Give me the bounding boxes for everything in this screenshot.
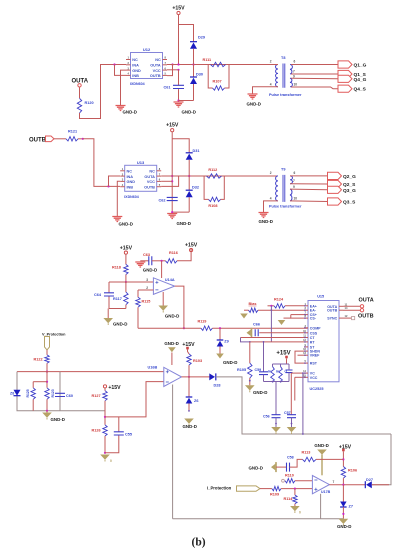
junction opamp V+ node xyxy=(161,260,163,262)
wire divider ground bus xyxy=(109,308,126,310)
svg-text:R109: R109 xyxy=(270,493,279,497)
ground GND-D T9 pin4 xyxy=(259,213,269,218)
U15 pin stub SHDN xyxy=(304,350,308,352)
port Q1_G xyxy=(338,61,352,68)
U15 pin stub VREF xyxy=(304,354,308,356)
svg-text:R125: R125 xyxy=(26,389,30,397)
svg-text:2: 2 xyxy=(270,60,272,64)
wire T8 pin4 to ground xyxy=(253,87,279,94)
svg-text:R124: R124 xyxy=(274,298,284,302)
ground GND-D below C61 xyxy=(174,102,184,107)
svg-text:10: 10 xyxy=(294,197,298,201)
wire CT row xyxy=(241,337,305,339)
wire R107 loop right xyxy=(225,65,230,89)
capacitor C59 xyxy=(259,372,268,375)
wire C56 bottom xyxy=(275,418,277,427)
svg-text:4: 4 xyxy=(270,83,272,87)
svg-text:9: 9 xyxy=(293,185,295,189)
port OUTA circle xyxy=(78,84,81,87)
port OUTB pwm circle xyxy=(360,309,363,312)
IC U15 PWM controller box xyxy=(308,301,339,382)
wire comp pulldown vertical xyxy=(302,373,304,434)
svg-text:R113: R113 xyxy=(302,451,311,455)
ground 0 R114 xyxy=(290,506,300,511)
U15 pin stub VCC xyxy=(304,376,308,378)
junction VP inner xyxy=(46,381,48,383)
U15 pin stub RST xyxy=(304,362,308,364)
junction R113 +15V xyxy=(342,458,344,460)
svg-text:2: 2 xyxy=(146,286,148,290)
resistor R timing 2 xyxy=(279,367,283,383)
junction output Z7 xyxy=(342,484,344,486)
wire U13 GND pin down xyxy=(117,181,120,216)
svg-text:Z6: Z6 xyxy=(194,399,198,403)
svg-text:GND-D: GND-D xyxy=(249,465,263,470)
svg-text:OUTA: OUTA xyxy=(144,175,155,179)
ground GND-D R105 xyxy=(245,385,255,390)
U12 right pin stub 6 xyxy=(163,69,168,71)
wire U12 VCC to +15V column xyxy=(167,69,179,71)
junction OUTB wire xyxy=(82,138,84,140)
wire VC row xyxy=(291,372,304,374)
wire T9 pin4 to ground xyxy=(264,201,279,213)
svg-text:GND-D: GND-D xyxy=(314,443,328,448)
junction U13 OUTA tie xyxy=(171,175,173,177)
svg-text:Z8: Z8 xyxy=(10,391,14,395)
svg-text:6: 6 xyxy=(294,60,296,64)
wire T8 pin7 to Q1_S xyxy=(291,73,338,75)
ground GND-D divider xyxy=(103,318,113,323)
svg-text:RST: RST xyxy=(310,362,318,366)
wire comp line to PWM xyxy=(212,327,308,329)
svg-text:6: 6 xyxy=(294,171,296,175)
U15 pin stub RT xyxy=(304,341,308,343)
svg-text:Q1_G: Q1_G xyxy=(354,63,367,69)
wire node to opamp plus xyxy=(109,281,153,283)
svg-text:R126: R126 xyxy=(92,429,101,433)
capacitor C60 xyxy=(55,393,65,396)
svg-text:GND-D: GND-D xyxy=(113,322,127,327)
svg-text:COMP: COMP xyxy=(310,326,321,330)
wire R122 to node xyxy=(46,363,48,371)
junction VP gnd node xyxy=(46,410,48,412)
svg-text:GND-D: GND-D xyxy=(123,110,137,115)
svg-text:GND-D: GND-D xyxy=(119,222,133,227)
port Q1_S xyxy=(338,70,352,77)
wire Z9 to ground xyxy=(219,347,221,354)
ground GND-D C56 xyxy=(271,427,281,432)
power +15V (U14A supply) xyxy=(190,249,193,252)
svg-text:GND-D: GND-D xyxy=(337,524,351,529)
wire C63 to R116 xyxy=(152,260,166,262)
wire C61 bottom lead xyxy=(178,89,180,100)
svg-text:D28: D28 xyxy=(214,384,221,388)
U13 left pin stub 2 xyxy=(120,175,125,177)
op-amp U16B xyxy=(164,367,182,386)
svg-text:GND-D: GND-D xyxy=(51,417,65,422)
diode Z6 xyxy=(186,396,193,398)
wire R120 to U12 inputs xyxy=(80,65,127,119)
resistor R113 xyxy=(303,457,317,461)
ground GND-D T8 pin4 xyxy=(248,94,258,99)
svg-text:INA: INA xyxy=(132,64,139,68)
svg-text:GND-D: GND-D xyxy=(177,221,191,226)
wire INA to INB tie xyxy=(115,65,127,76)
wire D28 to shutdown line xyxy=(216,377,391,434)
capacitor C57 xyxy=(287,415,296,418)
svg-text:10: 10 xyxy=(294,83,298,87)
wire VP node to comparator xyxy=(17,371,164,373)
wire opamp V+ stub xyxy=(161,261,163,278)
svg-text:+15V: +15V xyxy=(182,342,195,348)
wire VCC drop xyxy=(294,377,296,400)
wire C59 bottom lead xyxy=(263,375,265,382)
junction U12 OUTA-OUTB tie xyxy=(171,63,173,65)
ground GND-D below C62 xyxy=(167,214,177,219)
U12 left pin stub 3 xyxy=(126,69,131,71)
junction EA- node xyxy=(271,309,273,311)
svg-text:OUTA: OUTA xyxy=(150,64,161,68)
svg-text:R112: R112 xyxy=(208,168,217,172)
junction main B at diode column xyxy=(188,175,190,177)
wire T9 pin10 to Q3_S xyxy=(290,200,328,203)
wire U16B V- rail xyxy=(172,385,174,519)
svg-text:R119: R119 xyxy=(198,320,207,324)
svg-text:CS-: CS- xyxy=(310,317,317,321)
svg-text:0: 0 xyxy=(299,511,301,515)
svg-text:OUTB: OUTB xyxy=(29,138,47,144)
svg-text:SYNC: SYNC xyxy=(327,317,337,321)
wire R108 loop right xyxy=(221,176,225,199)
svg-text:+15V: +15V xyxy=(276,351,290,357)
wire CS+ entry xyxy=(291,314,304,316)
wire R117 top xyxy=(125,282,127,292)
capacitor C56 xyxy=(272,415,281,418)
svg-text:GND-D: GND-D xyxy=(253,390,267,395)
svg-text:R118: R118 xyxy=(112,266,121,270)
junction Z7 gnd xyxy=(342,513,344,515)
wire U13 VCC stub xyxy=(161,180,172,182)
power +15V (channel B) xyxy=(171,129,174,132)
svg-text:R121: R121 xyxy=(68,130,77,134)
port Q2_G xyxy=(328,172,342,179)
svg-text:GND-D: GND-D xyxy=(223,360,237,365)
U15 pin stub EA+ xyxy=(304,305,308,307)
wire T9 pin9 to Q3_G xyxy=(290,188,328,191)
wire R106 to output xyxy=(342,478,344,485)
svg-text:Q3_G: Q3_G xyxy=(343,188,356,194)
IC U13 gate driver box xyxy=(125,165,157,191)
U15 pin stub CS+ xyxy=(304,314,308,316)
wire R124 to EA+ xyxy=(285,305,304,307)
wire main gate A xyxy=(173,64,278,66)
U13 left pin stub 3 xyxy=(120,180,125,182)
wire C64 to bottom xyxy=(108,297,110,309)
wire +15V to R127 xyxy=(104,388,106,391)
capacitor C58 xyxy=(287,463,290,472)
wire R114 top xyxy=(294,489,296,495)
wire +15V to R103 xyxy=(188,350,190,354)
U12 left pin stub 1 xyxy=(126,59,131,61)
wire C55 top xyxy=(118,417,120,432)
wire U12 GND pin down xyxy=(121,70,127,105)
wire feedback left xyxy=(137,307,139,328)
resistor RT timing xyxy=(271,367,275,383)
svg-text:C58: C58 xyxy=(287,456,294,460)
U15 pin stub ST xyxy=(304,346,308,348)
wire R116 to +15V xyxy=(177,249,191,261)
svg-text:D31: D31 xyxy=(193,149,200,153)
svg-text:R108: R108 xyxy=(208,204,217,208)
svg-text:NC: NC xyxy=(155,58,161,62)
wire C59 top lead xyxy=(263,342,265,372)
svg-text:Pulse transformer: Pulse transformer xyxy=(269,205,302,209)
ground GND-D at C63 xyxy=(135,262,145,267)
wire divider gnd stub xyxy=(107,309,109,319)
port OUTB arrow xyxy=(46,136,55,142)
pin entry dot CS+ xyxy=(304,314,306,316)
resistor R119 xyxy=(201,326,213,330)
ground GND-D V_Protection xyxy=(42,413,52,418)
U13 right pin stub 7 xyxy=(157,175,162,177)
svg-text:Q2_S: Q2_S xyxy=(343,182,356,188)
wire CT left drop xyxy=(241,338,250,342)
no-connect square SYNC xyxy=(352,317,355,320)
svg-text:CT: CT xyxy=(310,336,316,340)
wire U17B V- stub xyxy=(320,494,322,519)
svg-text:R107: R107 xyxy=(213,80,222,84)
svg-text:C60: C60 xyxy=(66,394,73,398)
svg-text:GND-D: GND-D xyxy=(183,424,197,429)
U12 right pin stub 7 xyxy=(163,64,168,66)
svg-text:C66: C66 xyxy=(253,323,260,327)
wire U16B output xyxy=(182,376,210,378)
resistor R108 xyxy=(209,197,221,201)
wire opamp output xyxy=(175,286,184,328)
wire R105 column xyxy=(249,342,251,363)
junction V_Protection node xyxy=(46,371,48,373)
svg-text:Z7: Z7 xyxy=(349,505,353,509)
wire R109 to opamp plus xyxy=(281,488,312,490)
svg-text:EA+: EA+ xyxy=(310,304,317,308)
wire main gate B xyxy=(172,175,277,177)
junction node INB U13 xyxy=(107,185,109,187)
wire T8 pin10 to Q4_S xyxy=(291,87,338,89)
svg-text:GND-D: GND-D xyxy=(165,314,179,319)
capacitor C62 xyxy=(167,197,178,200)
svg-text:4: 4 xyxy=(270,197,272,201)
junction U16B output xyxy=(188,376,190,378)
pin entry dot VC xyxy=(304,372,306,374)
wire R108 loop left xyxy=(204,176,208,199)
wire T9 pin6 to Q2_G xyxy=(290,175,328,177)
svg-text:D32: D32 xyxy=(192,186,199,190)
pin entry dot CS- xyxy=(304,317,306,319)
wire C64 branch xyxy=(108,282,110,293)
wire timing to C56 xyxy=(275,382,277,415)
svg-text:+15V: +15V xyxy=(108,385,121,391)
IC U12 gate driver box xyxy=(131,53,163,79)
pin entry dot RST xyxy=(304,362,306,364)
resistor R110 xyxy=(285,479,295,483)
wire +15V to R118 xyxy=(125,254,127,264)
svg-text:OUTB: OUTB xyxy=(150,74,161,78)
pin entry dot VCC xyxy=(304,377,306,379)
power +15V (R103 pullup) xyxy=(186,347,189,350)
junction divider node xyxy=(125,281,127,283)
U13 right pin stub 6 xyxy=(157,180,162,182)
resistor R114 xyxy=(293,495,297,504)
junction R124 left xyxy=(270,305,272,307)
svg-text:UC2525: UC2525 xyxy=(310,387,324,391)
ground GND-D C57 xyxy=(287,427,297,432)
wire OUTB to U13 inputs xyxy=(83,139,120,187)
resistor R116 xyxy=(166,259,178,263)
wire D31 anode to node xyxy=(188,160,190,176)
svg-text:R106: R106 xyxy=(348,468,357,472)
svg-text:R123: R123 xyxy=(51,389,55,397)
wire R125 bottom lead xyxy=(32,399,34,410)
power +15V (R127 ref) xyxy=(103,385,106,388)
op-amp U14A xyxy=(153,278,174,295)
wire R126 to nodeB xyxy=(104,436,106,453)
svg-text:+15V: +15V xyxy=(185,242,198,248)
svg-text:Q3_S: Q3_S xyxy=(343,200,356,206)
svg-text:VCC: VCC xyxy=(310,376,318,380)
svg-text:D29: D29 xyxy=(198,36,205,40)
transformer T8 windings xyxy=(276,65,278,87)
capacitor C66 xyxy=(255,329,258,336)
junction timing bottom 2 xyxy=(280,381,282,383)
wire EA feedback vertical xyxy=(270,306,272,342)
U15 right pin stub SYNC xyxy=(339,317,343,319)
port V_Protection shape xyxy=(45,337,50,351)
junction main A at +15V column xyxy=(177,63,179,65)
svg-text:0: 0 xyxy=(110,459,112,463)
resistor R120 xyxy=(77,98,81,113)
svg-text:R115: R115 xyxy=(142,300,151,304)
junction timing bottom xyxy=(272,381,274,383)
pin entry dot CSS xyxy=(304,332,306,334)
wire pwm aux down xyxy=(286,359,288,365)
svg-text:U14A: U14A xyxy=(165,278,175,282)
resistor R121 xyxy=(66,137,78,141)
U15 pin stub CSS xyxy=(304,332,308,334)
wire timing C lead2 xyxy=(288,373,290,382)
svg-text:GND-D: GND-D xyxy=(182,110,196,115)
U13 left pin stub 4 xyxy=(120,186,125,188)
wire Z7 to ground xyxy=(342,507,344,519)
port Q2_S xyxy=(328,180,342,187)
svg-text:+15V: +15V xyxy=(166,123,179,129)
resistor R107 xyxy=(213,86,225,90)
svg-text:D30: D30 xyxy=(196,73,203,77)
wire R127 to nodeA xyxy=(104,401,106,425)
svg-text:7: 7 xyxy=(293,179,295,183)
svg-text:OUTB: OUTB xyxy=(327,309,338,313)
svg-text:+15V: +15V xyxy=(172,6,185,12)
svg-text:R122: R122 xyxy=(34,357,43,361)
port Q4_G xyxy=(338,75,352,82)
wire Bias to EA- xyxy=(258,309,304,311)
svg-text:GND-D: GND-D xyxy=(259,219,273,224)
wire V_Protection to R122 xyxy=(46,350,48,355)
pin entry dot SHDN xyxy=(304,350,306,352)
capacitor timing C xyxy=(286,370,293,373)
wire opamp V- stub xyxy=(162,292,164,306)
wire T9 pin7 to Q2_S xyxy=(290,183,328,185)
wire T8 pin9 to Q4_G xyxy=(291,77,338,80)
wire VP loop left xyxy=(17,372,105,411)
wire opamp minus input xyxy=(138,289,153,291)
wire D27 to loop xyxy=(372,484,389,486)
wire T8 pin2 stub xyxy=(273,64,279,66)
wire RST-SHDN link xyxy=(295,351,304,363)
transformer T9 windings xyxy=(276,176,278,201)
capacitor C63 xyxy=(149,256,152,265)
resistor R103 xyxy=(187,354,191,365)
wire U17B output xyxy=(329,484,365,486)
U13 left pin stub 1 xyxy=(120,170,125,172)
wire R105 bottom xyxy=(249,378,251,385)
wire VP loop right xyxy=(59,372,61,411)
svg-text:R116: R116 xyxy=(169,251,178,255)
svg-text:R105: R105 xyxy=(237,368,246,372)
resistor R118 xyxy=(124,264,128,274)
pin entry dot RT xyxy=(304,341,306,343)
wire bottom rail xyxy=(173,518,344,520)
svg-text:R127: R127 xyxy=(92,394,101,398)
wire C61 top lead xyxy=(178,70,180,86)
wire CS loop xyxy=(291,315,304,319)
wire timing C leads xyxy=(288,364,290,370)
diode D27 xyxy=(364,481,366,488)
U15 pin stub COMP xyxy=(304,327,308,329)
svg-text:Q4_G: Q4_G xyxy=(354,77,367,83)
ground GND-D below U12 xyxy=(116,106,126,111)
svg-text:Bias: Bias xyxy=(249,302,257,306)
U15 pin stub CT xyxy=(304,337,308,339)
svg-text:D27: D27 xyxy=(366,478,373,482)
ground GND-D below U13 xyxy=(112,217,122,222)
ground GND-D Z6 xyxy=(184,419,194,424)
svg-text:IXDN604: IXDN604 xyxy=(130,82,145,86)
wire R124 left lead xyxy=(268,305,275,307)
wire U17B V+ stub xyxy=(321,455,323,476)
svg-text:Z9: Z9 xyxy=(224,339,228,343)
svg-text:V_Protection: V_Protection xyxy=(42,332,66,336)
diode D30 xyxy=(190,76,197,78)
no-connect circle R110 xyxy=(282,479,285,482)
wire node to D32 xyxy=(188,176,190,190)
wire +15V A to D29 branch xyxy=(179,25,194,42)
svg-text:C62: C62 xyxy=(159,199,166,203)
wire OUTA to R120 xyxy=(79,87,81,98)
op-amp U17B xyxy=(312,476,329,494)
svg-text:R110: R110 xyxy=(285,474,294,478)
wire R121 to junction xyxy=(78,138,83,140)
svg-text:R117: R117 xyxy=(113,297,122,301)
wire OUTA-OUTB tie xyxy=(167,65,173,76)
svg-text:T9: T9 xyxy=(281,167,285,171)
svg-text:U12: U12 xyxy=(143,47,151,52)
ground GND-D U14A xyxy=(158,306,168,311)
diode D31 xyxy=(186,152,193,154)
svg-text:7: 7 xyxy=(293,70,295,74)
junction main A at diode column xyxy=(192,63,194,65)
junction R105 gnd xyxy=(249,380,251,382)
pin entry dot EA+ xyxy=(304,305,306,307)
